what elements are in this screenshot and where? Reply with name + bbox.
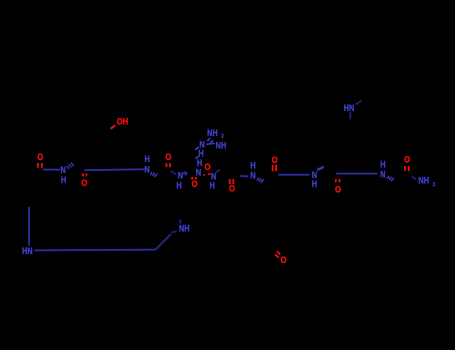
svg-text:N: N bbox=[250, 171, 255, 181]
svg-text:NH: NH bbox=[179, 224, 190, 234]
svg-text:O: O bbox=[404, 154, 410, 165]
svg-text:H: H bbox=[250, 161, 255, 171]
svg-text:O: O bbox=[272, 154, 278, 165]
svg-text:O: O bbox=[335, 184, 341, 195]
svg-text:NH: NH bbox=[207, 128, 218, 138]
svg-text:O: O bbox=[81, 177, 87, 188]
svg-text:H: H bbox=[210, 181, 215, 191]
svg-text:H: H bbox=[61, 175, 66, 185]
svg-text:O: O bbox=[229, 183, 235, 194]
svg-text:H: H bbox=[176, 181, 181, 191]
svg-text:N: N bbox=[196, 168, 201, 178]
svg-text:N: N bbox=[178, 171, 183, 181]
svg-text:N: N bbox=[144, 165, 149, 175]
svg-text:O: O bbox=[37, 151, 43, 162]
svg-text:H: H bbox=[312, 179, 317, 189]
svg-text:N: N bbox=[380, 170, 385, 180]
svg-text:O: O bbox=[191, 178, 197, 189]
svg-text:O: O bbox=[204, 161, 210, 172]
svg-text:HN: HN bbox=[22, 246, 33, 256]
svg-text:HN: HN bbox=[344, 103, 355, 113]
svg-text:H: H bbox=[145, 154, 150, 164]
svg-text:O: O bbox=[165, 151, 171, 162]
svg-text:NH: NH bbox=[216, 141, 227, 151]
svg-text:H: H bbox=[380, 160, 385, 170]
svg-text:2: 2 bbox=[221, 133, 224, 140]
svg-text:NH: NH bbox=[418, 176, 429, 186]
svg-text:2: 2 bbox=[433, 181, 436, 188]
svg-text:H: H bbox=[198, 149, 203, 159]
svg-text:N: N bbox=[61, 165, 66, 175]
svg-text:O: O bbox=[280, 254, 286, 265]
svg-text:OH: OH bbox=[117, 116, 129, 127]
svg-text:H: H bbox=[197, 158, 202, 168]
